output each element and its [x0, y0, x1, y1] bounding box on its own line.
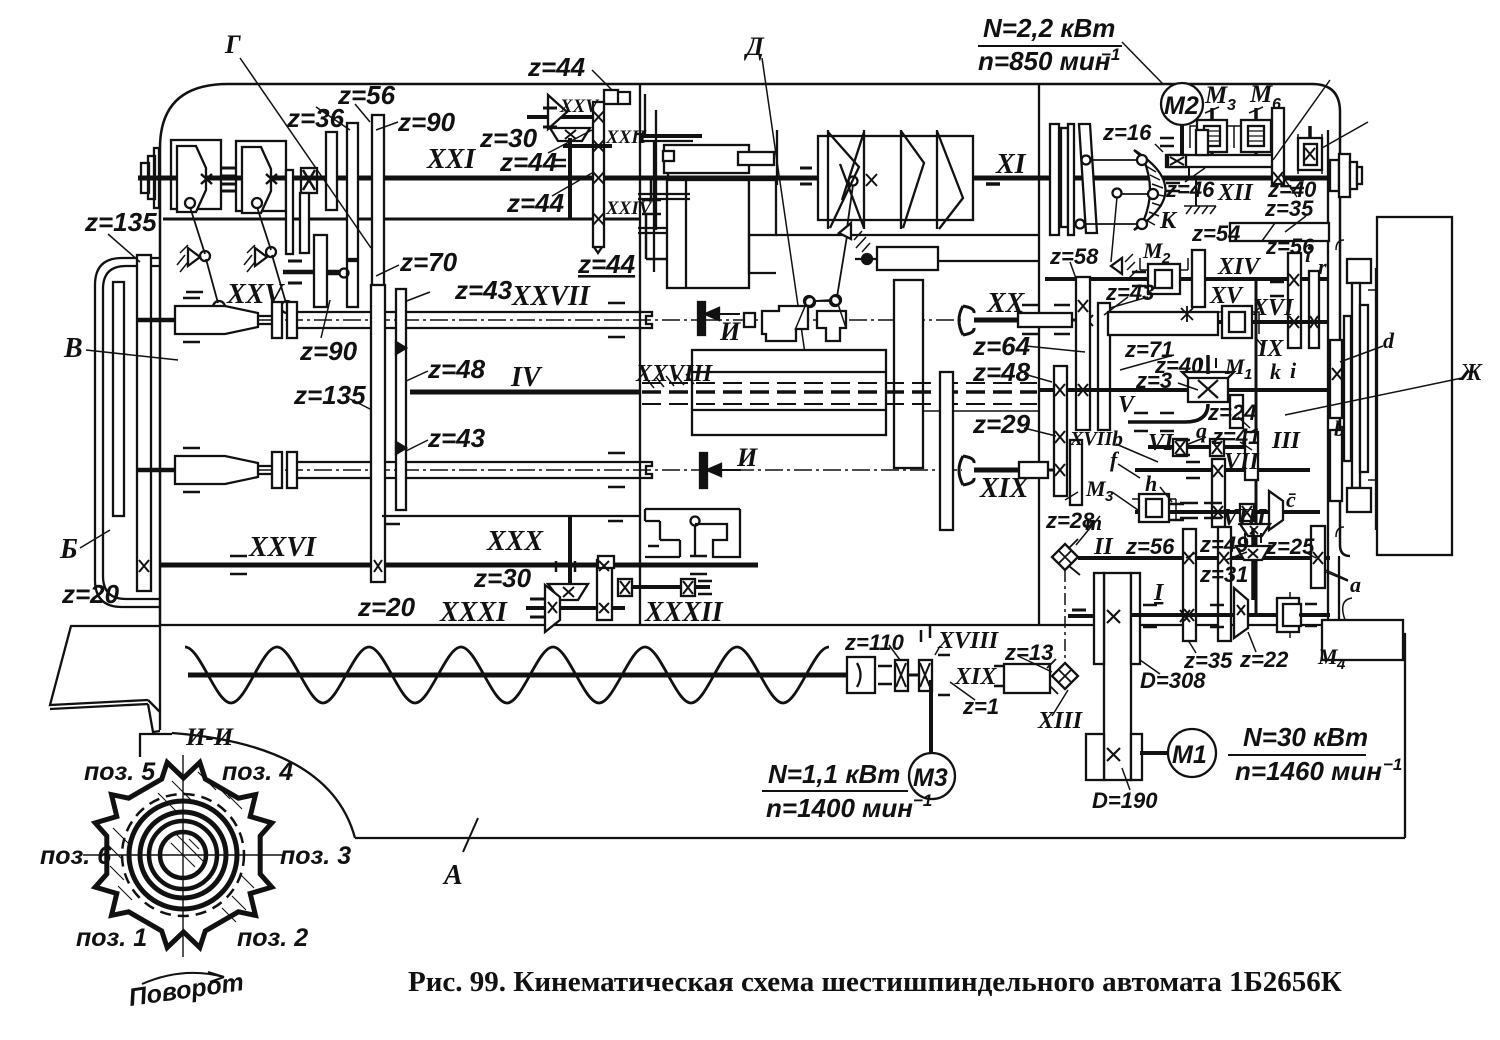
- z=56 col / z=49-31 col / z=25 col: [1183, 529, 1196, 641]
- svg-text:h: h: [1145, 471, 1157, 496]
- svg-text:М: М: [1224, 354, 1246, 379]
- svg-text:М: М: [1142, 238, 1164, 263]
- svg-text:i: i: [1305, 242, 1312, 267]
- clutch bar on shaft XII: [1166, 155, 1280, 167]
- svg-text:М: М: [1204, 82, 1228, 109]
- shaft XV rack: [1108, 312, 1218, 335]
- svg-text:z=44: z=44: [527, 52, 586, 82]
- M3 clutch: [1197, 120, 1227, 152]
- svg-text:В: В: [63, 333, 83, 364]
- svg-text:XXI: XXI: [426, 144, 476, 175]
- bearing x-box on shaft: [301, 168, 317, 193]
- outline notch to section arc: [140, 734, 172, 757]
- vertical shaft down to M3: [929, 680, 933, 754]
- ring gear bar: [137, 255, 151, 591]
- svg-text:b: b: [1334, 416, 1345, 441]
- svg-text:И: И: [736, 443, 758, 472]
- z=43 col: [1098, 303, 1110, 430]
- line y=235 under variator: [776, 234, 1039, 236]
- z=80/z=40 col: [1272, 108, 1284, 184]
- svg-text:z=58: z=58: [1049, 244, 1099, 269]
- svg-text:II: II: [1093, 534, 1114, 560]
- gear bar z=36: [326, 132, 337, 210]
- svg-text:М2: М2: [1164, 92, 1199, 120]
- svg-text:6: 6: [1272, 96, 1281, 113]
- right gearbox labels: [844, 81, 1483, 813]
- svg-text:n=850 мин: n=850 мин: [978, 46, 1111, 76]
- svg-text:z=20: z=20: [61, 579, 120, 609]
- svg-text:i: i: [1290, 358, 1297, 383]
- leader lines left: [80, 58, 430, 548]
- svg-text:n=1460 мин: n=1460 мин: [1235, 756, 1382, 786]
- gear bar z=90 tall: [372, 115, 384, 304]
- XVI shaft line: [1260, 320, 1328, 324]
- M3 motor: [909, 753, 955, 799]
- svg-text:−1: −1: [913, 791, 932, 810]
- stepped shaft end right: [1330, 160, 1339, 191]
- machine housing outline: [160, 84, 1350, 625]
- z=30 bevel top: [548, 95, 567, 129]
- ticks near z=44 labels: [592, 70, 612, 90]
- M3s clutch lower left: [1139, 494, 1169, 522]
- svg-text:XXX: XXX: [486, 526, 544, 557]
- svg-text:Ж: Ж: [1458, 360, 1483, 386]
- outer housing curve: [95, 258, 160, 607]
- shaft XIV: [1045, 277, 1328, 281]
- svg-text:z=135: z=135: [84, 207, 157, 237]
- svg-text:1: 1: [1244, 366, 1252, 383]
- svg-text:z=49: z=49: [1199, 532, 1249, 557]
- z=3 bevel on camshaft: [1188, 376, 1228, 402]
- svg-text:XXVIII: XXVIII: [635, 361, 714, 387]
- svg-text:IV: IV: [510, 362, 543, 393]
- svg-text:М: М: [1249, 81, 1273, 108]
- svg-text:XXVII: XXVII: [511, 281, 591, 312]
- section big arc: [172, 733, 355, 838]
- svg-text:поз. 1: поз. 1: [76, 924, 147, 952]
- svg-text:z=41: z=41: [1211, 424, 1260, 449]
- svg-text:z=56: z=56: [337, 80, 396, 110]
- svg-text:z=36: z=36: [286, 103, 345, 133]
- II shaft: [1078, 556, 1330, 560]
- svg-text:XXII: XXII: [605, 127, 647, 148]
- z=13 box: [1004, 664, 1050, 693]
- svg-text:М3: М3: [913, 764, 948, 792]
- hatched pivot: [1111, 258, 1122, 274]
- ground hatch: [1184, 206, 1216, 214]
- svg-text:z=90: z=90: [299, 336, 358, 366]
- svg-text:VIII: VIII: [1222, 505, 1268, 531]
- big lever bar: [894, 280, 923, 468]
- col z=56 top (XVI area): [1288, 253, 1301, 348]
- svg-text:z=48: z=48: [427, 354, 486, 384]
- vertical shaft between II and I w bevels: [1251, 528, 1255, 600]
- svg-text:q: q: [1196, 418, 1207, 443]
- svg-text:−1: −1: [1101, 45, 1120, 64]
- svg-text:D=190: D=190: [1092, 788, 1158, 813]
- wall x=1039: [1038, 84, 1040, 625]
- shaft XXI / XI / XII main line: [138, 176, 1356, 181]
- pivot triangles hatched: [188, 248, 200, 266]
- inner bar: [113, 282, 124, 516]
- variator output disc stack: [1050, 124, 1059, 235]
- lower spindle axis dash-dot: [140, 469, 700, 471]
- leaders right gearbox: [1104, 297, 1128, 315]
- bed right upper edge: [1339, 556, 1405, 838]
- XXV short shaft: [283, 270, 314, 275]
- clutch M2s box on XIV: [1148, 264, 1180, 294]
- spindle 2 (y=470): [138, 468, 175, 473]
- svg-text:Д: Д: [744, 32, 765, 61]
- svg-text:z=44: z=44: [577, 249, 636, 279]
- svg-text:V: V: [1118, 392, 1136, 418]
- svg-text:N=1,1 кВт: N=1,1 кВт: [768, 759, 900, 789]
- svg-text:3: 3: [1105, 488, 1114, 505]
- svg-text:XVIII: XVIII: [937, 628, 1000, 654]
- XXX vertical shaft: [568, 516, 572, 590]
- svg-text:N=2,2 кВт: N=2,2 кВт: [983, 13, 1115, 43]
- svg-text:z=43: z=43: [454, 275, 513, 305]
- clutch block 1: [171, 140, 221, 209]
- svg-text:М1: М1: [1172, 741, 1207, 769]
- svg-text:z=16: z=16: [1102, 120, 1152, 145]
- svg-text:М: М: [1085, 476, 1107, 501]
- svg-text:n=1400 мин: n=1400 мин: [766, 793, 913, 823]
- svg-text:N=30 кВт: N=30 кВт: [1243, 722, 1368, 752]
- svg-text:Поворот: Поворот: [127, 968, 246, 1012]
- XXVI equals marks: [230, 556, 707, 574]
- svg-text:z=56: z=56: [1125, 534, 1175, 559]
- x-mark on XXVI: [139, 560, 149, 572]
- left pedestal trapezoid: [50, 625, 160, 712]
- coupling at right end: [847, 657, 875, 693]
- svg-text:k: k: [1270, 359, 1281, 384]
- VI shaft: [1148, 445, 1245, 449]
- svg-text:XVI: XVI: [1251, 295, 1295, 321]
- svg-text:XII: XII: [1217, 180, 1254, 206]
- svg-text:VI: VI: [1148, 430, 1175, 456]
- svg-text:z=22: z=22: [1239, 647, 1289, 672]
- VIII shaft: [1135, 510, 1320, 514]
- equals between blocks: [222, 168, 236, 191]
- svg-text:z=28: z=28: [1045, 508, 1095, 533]
- shaft IV: [410, 390, 640, 395]
- svg-text:z=25: z=25: [1265, 534, 1315, 559]
- clutch block 2: [236, 141, 286, 211]
- svg-text:I: I: [1153, 580, 1165, 606]
- svg-text:М: М: [1317, 644, 1339, 669]
- svg-text:D=308: D=308: [1140, 668, 1206, 693]
- svg-text:z=31: z=31: [1199, 562, 1248, 587]
- A slash tick: [463, 818, 478, 852]
- gear bar z=56: [347, 123, 358, 259]
- shaft XXVI: [160, 563, 758, 568]
- svg-text:поз. 2: поз. 2: [237, 924, 308, 952]
- svg-text:XIII: XIII: [1037, 708, 1084, 734]
- XXXI shaft: [526, 606, 625, 610]
- svg-text:r: r: [1318, 254, 1327, 279]
- svg-text:XXV: XXV: [226, 279, 285, 310]
- camshaft y=390: [1040, 388, 1328, 392]
- equals marks right area: [1160, 138, 1174, 146]
- bevel pair z=110: [895, 660, 908, 691]
- z=54 col: [1192, 250, 1205, 307]
- z=24 col: [1230, 395, 1243, 428]
- svg-text:z=46: z=46: [1165, 177, 1215, 202]
- svg-text:поз. 4: поз. 4: [222, 758, 293, 786]
- svg-text:XXVI: XXVI: [248, 532, 317, 563]
- perpendicular frame symbols: [642, 178, 661, 200]
- svg-text:4: 4: [1336, 656, 1346, 673]
- a gear + leader: [1326, 572, 1348, 581]
- svg-text:И-И: И-И: [185, 724, 235, 751]
- M2 motor: [1161, 83, 1203, 125]
- svg-text:z=30: z=30: [473, 563, 532, 593]
- secondary pushrod bar: [940, 372, 953, 530]
- bevel fork on XXXI: [545, 585, 560, 632]
- svg-text:XI: XI: [995, 149, 1027, 180]
- wall x=1328: [1327, 130, 1329, 625]
- sub-box top line y=516: [382, 515, 640, 517]
- svg-text:XXXI: XXXI: [439, 597, 508, 628]
- svg-text:Рис. 99. Кинематическая схема: Рис. 99. Кинематическая схема шестишпинд…: [408, 966, 1342, 998]
- svg-text:z=35: z=35: [1264, 196, 1314, 221]
- VII shaft: [1135, 468, 1310, 472]
- svg-text:XV: XV: [1209, 283, 1244, 309]
- x-box and line to XXXII: [618, 579, 632, 596]
- narrow bar left of z=36: [286, 170, 293, 254]
- svg-text:z=48: z=48: [972, 357, 1031, 387]
- z=30 bevel on XXX: [548, 584, 588, 600]
- svg-text:XX: XX: [986, 288, 1026, 319]
- svg-text:поз. 3: поз. 3: [280, 842, 351, 870]
- chain sector K: [1134, 150, 1166, 230]
- spindle 1 (y=320): [138, 318, 175, 323]
- svg-text:z=90: z=90: [397, 107, 456, 137]
- svg-text:z=135: z=135: [293, 380, 366, 410]
- svg-text:Г: Г: [224, 30, 241, 59]
- linkage: [849, 177, 858, 186]
- svg-text:XXXII: XXXII: [644, 597, 724, 628]
- svg-text:−1: −1: [1383, 755, 1402, 774]
- vertical gear w x-marks: [597, 560, 612, 620]
- svg-text:VII: VII: [1224, 449, 1260, 475]
- right bracket frame: [618, 92, 630, 104]
- svg-text:z=43: z=43: [427, 423, 486, 453]
- z=1 worm box: [1298, 138, 1322, 170]
- svg-text:z=110: z=110: [844, 630, 905, 655]
- svg-text:a: a: [1350, 572, 1361, 597]
- svg-text:III: III: [1271, 428, 1302, 454]
- shaft end stepped caps: [141, 163, 149, 193]
- svg-text:z=24: z=24: [1207, 400, 1256, 425]
- svg-text:z=44: z=44: [499, 147, 558, 177]
- gear z=70 on XXV: [314, 235, 327, 307]
- svg-text:z=44: z=44: [506, 188, 565, 218]
- counterweight bar: [877, 247, 938, 270]
- M4 coupling on I: [1277, 598, 1299, 632]
- M1 clutch box on XV: [1222, 306, 1252, 338]
- svg-text:XVII: XVII: [1069, 428, 1113, 450]
- svg-text:3: 3: [1227, 97, 1236, 114]
- svg-text:А: А: [442, 860, 463, 891]
- shaft XXV stub: [527, 115, 598, 119]
- motor labels: [762, 13, 1402, 823]
- svg-text:XXIV: XXIV: [605, 198, 653, 219]
- svg-text:z=29: z=29: [972, 409, 1031, 439]
- bed top edge: [160, 624, 1339, 626]
- svg-text:c̄: c̄: [1286, 487, 1296, 512]
- secondary line y=219: [163, 218, 640, 221]
- svg-text:XIV: XIV: [1217, 254, 1261, 280]
- svg-text:поз. 6: поз. 6: [40, 842, 112, 870]
- z=58 col: [1076, 277, 1090, 430]
- svg-text:z=43: z=43: [1105, 280, 1154, 305]
- vertical shaft x=1256: [1255, 277, 1258, 615]
- svg-text:z=20: z=20: [357, 592, 416, 622]
- M6 clutch: [1241, 120, 1271, 152]
- wall x=640: [639, 84, 641, 625]
- z=48/29 col: [1054, 366, 1067, 496]
- svg-text:К: К: [1159, 208, 1178, 234]
- svg-text:z=70: z=70: [399, 247, 458, 277]
- levers from clutches: [190, 207, 218, 303]
- svg-text:И: И: [719, 317, 741, 346]
- svg-text:XIX: XIX: [954, 664, 997, 690]
- I shaft: [1130, 613, 1330, 617]
- svg-text:d: d: [1383, 328, 1395, 353]
- svg-text:z=3: z=3: [1135, 368, 1172, 393]
- bottom right box M4 area: [1322, 620, 1403, 660]
- leaders: [1122, 42, 1163, 84]
- shaft XXVII axis dash-dot: [140, 319, 697, 321]
- z=46 gear col: [1196, 130, 1208, 155]
- curved pipe to V: [1128, 404, 1208, 422]
- bed bottom A-line: [355, 837, 1405, 839]
- svg-text:Б: Б: [59, 534, 78, 565]
- svg-text:z=1: z=1: [962, 694, 999, 719]
- svg-text:z=54: z=54: [1191, 221, 1240, 246]
- svg-text:XIX: XIX: [979, 473, 1030, 504]
- leaders d and Ж: [1340, 346, 1383, 362]
- svg-text:поз. 5: поз. 5: [84, 758, 156, 786]
- svg-text:2: 2: [1161, 250, 1171, 267]
- geneva bracket structure above: [645, 509, 740, 557]
- svg-text:XXV: XXV: [559, 96, 599, 117]
- z=35/56 slider bar: [1230, 223, 1329, 241]
